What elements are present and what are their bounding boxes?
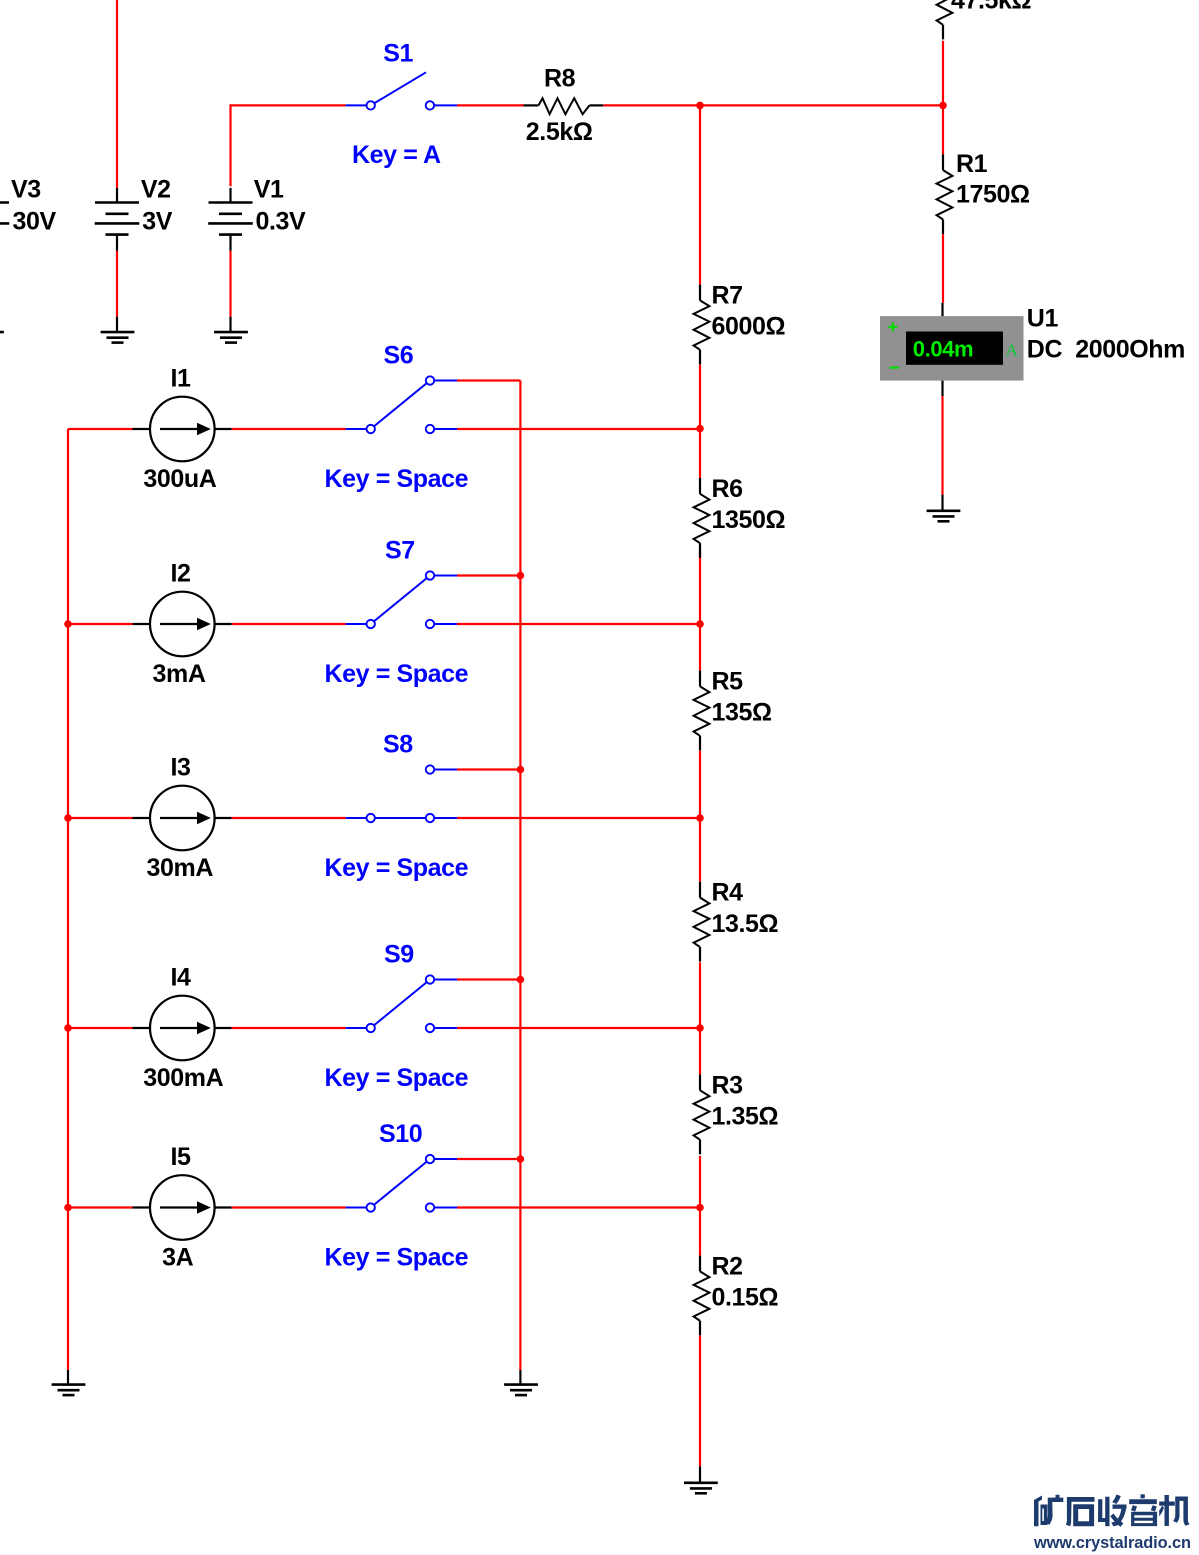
wire S10 top throw (457, 1158, 520, 1160)
left bus junctions (64, 620, 72, 1211)
current source I4 (133, 996, 232, 1061)
svg-text:Key = A: Key = A (352, 141, 441, 169)
current source I5 (133, 1175, 232, 1240)
svg-text:1350Ω: 1350Ω (712, 506, 786, 534)
svg-text:Key = Space: Key = Space (325, 660, 469, 688)
svg-text:R3: R3 (712, 1071, 743, 1099)
svg-text:I1: I1 (171, 365, 192, 393)
battery V1 (208, 188, 253, 332)
svg-text:6000Ω: 6000Ω (712, 313, 786, 341)
svg-text:I4: I4 (171, 964, 192, 992)
svg-text:13.5Ω: 13.5Ω (712, 910, 779, 938)
wire V1 top (231, 105, 346, 186)
svg-text:R6: R6 (712, 475, 743, 503)
switch S6 (346, 376, 457, 433)
wire I4 to S9 (232, 1027, 346, 1029)
wire S6 top throw (457, 379, 520, 381)
svg-text:S7: S7 (385, 537, 415, 565)
svg-text:30V: 30V (13, 208, 57, 236)
current source I1 (133, 397, 232, 462)
node B junction (939, 102, 947, 110)
switch S9 (346, 975, 457, 1032)
svg-text:Key = Space: Key = Space (325, 465, 469, 493)
wire R1 to U1 (941, 234, 944, 316)
watermark url (1033, 1534, 1191, 1552)
wire row I2 left (68, 623, 133, 625)
ground left (52, 1385, 86, 1396)
svg-text:S10: S10 (379, 1120, 422, 1148)
svg-text:V1: V1 (254, 176, 284, 204)
ground V2 (101, 332, 135, 343)
svg-text:30mA: 30mA (147, 854, 214, 882)
ground mid (504, 1385, 538, 1396)
wire S7 bottom throw (457, 623, 700, 625)
node A junction (696, 102, 704, 110)
multimeter U1 (880, 316, 1024, 381)
wire V2 top (116, 0, 118, 188)
svg-text:DC 2000Ohm: DC 2000Ohm (1027, 336, 1185, 364)
wire R8 to node A (603, 104, 700, 106)
wire left bus (67, 429, 69, 1385)
svg-text:300mA: 300mA (143, 1064, 223, 1092)
wire node A to node B (700, 104, 943, 106)
switch S7 (346, 571, 457, 628)
ground V1 (214, 332, 248, 343)
wire S9 bottom throw (457, 1027, 700, 1029)
svg-text:www.crystalradio.cn: www.crystalradio.cn (1033, 1534, 1191, 1552)
switch S10 (346, 1155, 457, 1212)
current source I2 (133, 592, 232, 657)
svg-text:R4: R4 (712, 879, 744, 907)
wire S10 bottom throw (457, 1206, 700, 1208)
switch S8 (346, 765, 457, 822)
svg-text:I2: I2 (171, 560, 191, 588)
svg-text:47.5kΩ: 47.5kΩ (951, 0, 1032, 15)
wire 47.5k to node B (942, 41, 944, 106)
resistor R2 (694, 1256, 710, 1336)
resistor R8 (524, 98, 604, 114)
svg-text:R1: R1 (956, 150, 988, 178)
current source I3 (133, 786, 232, 851)
svg-text:3mA: 3mA (153, 660, 206, 688)
wire U1 to ground (941, 381, 943, 511)
wire row I5 left (68, 1206, 133, 1208)
svg-text:0.3V: 0.3V (256, 208, 307, 236)
switch S1 (346, 72, 457, 109)
wire S8 bottom throw (457, 817, 700, 819)
ground V3 (0, 332, 4, 343)
resistor R1 (937, 154, 953, 234)
svg-text:0.04m: 0.04m (913, 336, 973, 361)
resistor R3 (694, 1075, 710, 1155)
wire S6 bottom throw (457, 428, 700, 430)
svg-text:3V: 3V (142, 208, 173, 236)
svg-text:Key = Space: Key = Space (325, 854, 469, 882)
svg-text:Key = Space: Key = Space (325, 1244, 469, 1272)
resistor R5 (694, 671, 710, 751)
wire S7 top throw (457, 574, 520, 576)
svg-text:2.5kΩ: 2.5kΩ (526, 118, 593, 146)
svg-text:S9: S9 (384, 941, 414, 969)
wire row I3 left (68, 817, 133, 819)
resistor R4 (694, 882, 710, 962)
svg-text:R2: R2 (712, 1252, 743, 1280)
battery V3 (0, 188, 9, 332)
svg-text:A: A (1006, 341, 1019, 360)
svg-text:R8: R8 (544, 65, 576, 93)
svg-text:V3: V3 (11, 176, 41, 204)
svg-text:S8: S8 (383, 731, 413, 759)
wire row I4 left (68, 1027, 133, 1029)
svg-text:3A: 3A (162, 1244, 194, 1272)
resistor 47.5k (top, cut off) (937, 0, 953, 39)
wire S1 to R8 (457, 104, 524, 106)
svg-text:300uA: 300uA (143, 465, 216, 493)
wire I2 to S7 (232, 623, 346, 625)
ground U1 (927, 511, 961, 522)
wire I3 to S8 (232, 817, 346, 819)
mid bus junctions (517, 572, 525, 1163)
wire middle column (699, 105, 701, 1466)
svg-text:S6: S6 (384, 342, 414, 370)
resistor R6 (694, 478, 710, 558)
svg-text:1.35Ω: 1.35Ω (712, 1103, 779, 1131)
wire node B to R1 (942, 105, 944, 154)
wire S9 top throw (457, 978, 520, 980)
svg-text:Key = Space: Key = Space (325, 1064, 469, 1092)
svg-text:1750Ω: 1750Ω (956, 180, 1030, 208)
watermark logo (1034, 1494, 1190, 1527)
svg-text:I5: I5 (171, 1143, 192, 1171)
svg-text:V2: V2 (141, 176, 171, 204)
svg-text:135Ω: 135Ω (712, 699, 773, 727)
wire mid bus (519, 381, 521, 1386)
wire row I1 left (68, 428, 133, 430)
svg-text:0.15Ω: 0.15Ω (712, 1284, 779, 1312)
svg-text:R5: R5 (712, 667, 744, 695)
battery V2 (95, 188, 140, 332)
wire I5 to S10 (232, 1206, 346, 1208)
svg-text:I3: I3 (171, 754, 191, 782)
wire I1 to S6 (232, 428, 346, 430)
middle column junctions (696, 425, 704, 1211)
svg-text:U1: U1 (1027, 304, 1059, 332)
svg-text:S1: S1 (383, 40, 413, 68)
svg-text:R7: R7 (712, 281, 743, 309)
resistor R7 (694, 285, 710, 365)
ground bottom (699, 1466, 701, 1483)
wire S8 top throw (457, 768, 520, 770)
